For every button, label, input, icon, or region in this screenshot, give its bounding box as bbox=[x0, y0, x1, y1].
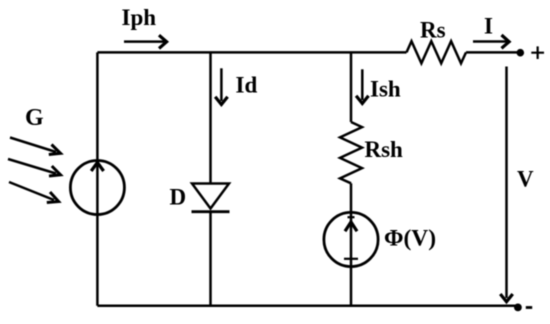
label - (negative terminal) bbox=[526, 306, 532, 309]
node + terminal dot bbox=[517, 49, 525, 57]
wire shunt branch upper bbox=[350, 52, 353, 122]
voltage source plus tick (bottom) bbox=[344, 258, 358, 260]
current source Iph (circle) bbox=[70, 161, 124, 215]
irradiance arrow 2 bbox=[8, 159, 56, 174]
svg-text:Φ(V): Φ(V) bbox=[384, 225, 436, 251]
wire diode branch upper bbox=[209, 52, 212, 183]
voltage source Φ(V) circle bbox=[324, 212, 378, 266]
wire Rs to + terminal bbox=[466, 51, 518, 54]
arrow V (output voltage) bbox=[505, 67, 508, 299]
diode D (cathode bar) bbox=[192, 210, 230, 213]
svg-text:Rs: Rs bbox=[420, 18, 446, 43]
svg-text:V: V bbox=[517, 166, 534, 191]
voltage source internal shaft bbox=[350, 212, 353, 306]
arrow Id bbox=[220, 68, 223, 101]
wire Rsh to voltage source bbox=[350, 183, 353, 211]
svg-text:Ish: Ish bbox=[370, 76, 401, 101]
arrow Ish bbox=[361, 69, 364, 100]
current source arrow head (up) bbox=[91, 163, 103, 172]
irradiance arrow 1 bbox=[10, 138, 56, 153]
voltage source minus tick (top) bbox=[348, 216, 355, 218]
node - terminal dot bbox=[514, 304, 522, 312]
wire bottom horizontal bbox=[97, 304, 518, 307]
svg-text:Iph: Iph bbox=[122, 5, 157, 30]
wire diode branch lower bbox=[209, 212, 212, 306]
arrow I (current out) bbox=[473, 40, 507, 43]
diode D (triangle) bbox=[192, 184, 229, 209]
svg-text:Id: Id bbox=[236, 73, 258, 98]
wire top horizontal (left node to Rs) bbox=[97, 51, 406, 54]
wire left vertical branch bbox=[96, 52, 99, 305]
svg-text:I: I bbox=[484, 14, 493, 39]
irradiance arrow 3 bbox=[9, 182, 54, 200]
svg-text:Rsh: Rsh bbox=[365, 137, 404, 162]
resistor Rs bbox=[407, 41, 467, 63]
svg-text:G: G bbox=[25, 105, 44, 131]
voltage source arrow head (up) bbox=[345, 222, 357, 231]
resistor Rsh bbox=[340, 122, 362, 183]
svg-text:D: D bbox=[170, 185, 187, 210]
arrow Iph bbox=[124, 40, 164, 43]
label + (positive terminal) bbox=[531, 46, 544, 59]
